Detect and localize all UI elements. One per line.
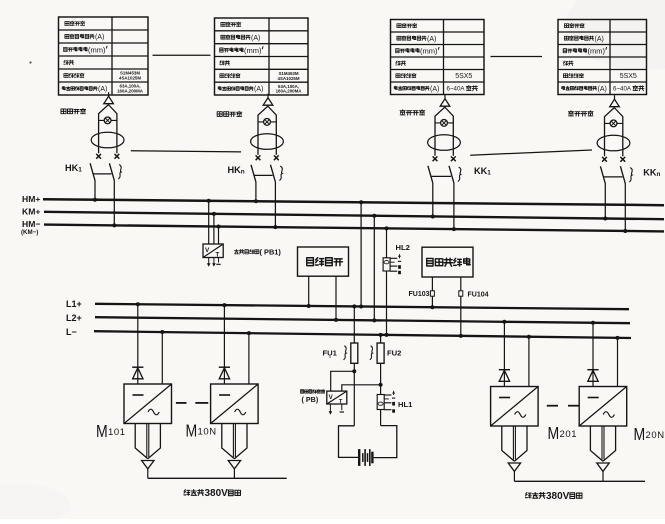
- svg-text:V: V: [205, 247, 210, 254]
- svg-text:(mm): (mm): [420, 47, 438, 56]
- feeder table T1 (feeder table rows: 馈线编号/馈线额定电流(A)/电缆及截面(mm)2/去向/开关型号/空气开关额定电流(A)): [59, 17, 149, 95]
- svg-text:M: M: [96, 421, 108, 441]
- svg-text:(KM−): (KM−): [21, 229, 38, 236]
- label 合闸回路: [217, 111, 242, 116]
- dc voltmeter PB1 (直流电压表) with selector: [203, 199, 223, 267]
- svg-text:380V: 380V: [205, 488, 229, 499]
- knife switch HK1: [90, 163, 121, 227]
- svg-text:HL1: HL1: [398, 400, 413, 409]
- breaker plug-in unit with indicator lamp, feeder 1: [91, 92, 124, 159]
- svg-text:L2+: L2+: [66, 313, 82, 323]
- indicator lamp HL2 on HM- to L- wire: [383, 226, 401, 337]
- scan speck: [29, 61, 31, 63]
- label 直流电压表(PB1): [234, 250, 258, 254]
- svg-text:5SX5: 5SX5: [455, 73, 472, 80]
- svg-text:20N: 20N: [646, 430, 665, 441]
- svg-text:HK: HK: [65, 163, 79, 173]
- bus HM+: [43, 199, 664, 205]
- feeder table T2 (feeder table rows: 馈线编号/馈线额定电流(A)/电缆及截面(mm)2/去向/开关型号/空气开关额定电流(A)): [215, 18, 309, 95]
- feeder table T4 (feeder table rows: 馈线编号/馈线额定电流(A)/电缆及截面(mm)2/去向/开关型号/空气开关额定电流(A)): [558, 20, 647, 95]
- svg-text:HK: HK: [228, 165, 242, 175]
- feeder table T3 (feeder table rows: 馈线编号/馈线额定电流(A)/电缆及截面(mm)2/去向/开关型号/空气开关额定电流(A)): [391, 20, 485, 95]
- svg-text:(A): (A): [430, 86, 439, 93]
- bus L2+: [95, 317, 630, 323]
- bus L-: [94, 331, 631, 338]
- svg-text:(A): (A): [251, 35, 260, 42]
- svg-text:HM−: HM−: [22, 219, 40, 229]
- svg-text:HL2: HL2: [396, 243, 410, 252]
- bus KM+: [44, 212, 664, 219]
- svg-text:(mm): (mm): [88, 45, 106, 54]
- svg-text:(A): (A): [427, 36, 436, 43]
- svg-text:(A): (A): [254, 86, 263, 93]
- svg-text:4SA1025M: 4SA1025M: [119, 76, 141, 81]
- svg-text:( PB): ( PB): [302, 395, 319, 404]
- svg-text:n: n: [657, 171, 661, 178]
- svg-text:5SX5: 5SX5: [620, 73, 637, 80]
- rectifier module M10N (AC/DC converter): [211, 303, 259, 469]
- svg-text:KK: KK: [474, 166, 488, 176]
- voltage dropper unit 降压装置: [298, 247, 349, 322]
- label 至交流380V电源 (right): [525, 492, 545, 498]
- fuse FU2 on battery negative: [377, 333, 384, 395]
- wire: link between table T1 and T2: [153, 54, 211, 56]
- svg-text:380V: 380V: [546, 491, 570, 502]
- svg-text:FU2: FU2: [387, 348, 401, 357]
- svg-text:10N: 10N: [198, 427, 217, 438]
- svg-text:1: 1: [78, 166, 82, 173]
- indicator lamp HL1 on battery negative: [377, 390, 395, 425]
- rectifier module M20N (AC/DC converter): [579, 321, 627, 472]
- breaker plug-in unit with indicator lamp, feeder 3: [428, 95, 461, 162]
- svg-text:201: 201: [560, 429, 578, 440]
- svg-text:(mm): (mm): [588, 47, 606, 56]
- rectifier module M101 (AC/DC converter): [124, 302, 172, 469]
- wire: link between table T3 and T4: [491, 56, 543, 58]
- dashed link M201..M20N: [547, 405, 558, 407]
- svg-text:T: T: [339, 399, 343, 405]
- label 控制回路: [568, 111, 593, 116]
- bus HM- (KM-): [44, 225, 664, 232]
- insulation monitor 绝缘监测仪: [422, 247, 473, 338]
- svg-text:L1+: L1+: [66, 299, 82, 309]
- label 合闸回路: [61, 109, 86, 114]
- knife switch KKN: [600, 166, 632, 233]
- svg-text:4SA1025M: 4SA1025M: [278, 76, 300, 81]
- knife switch HKN: [251, 165, 282, 229]
- spark gap mark at FU2: [370, 346, 372, 360]
- svg-text:M: M: [634, 424, 646, 444]
- AC 380V supply line (left group): [148, 469, 287, 478]
- svg-text:101: 101: [108, 427, 126, 438]
- svg-text:6~40A: 6~40A: [613, 86, 632, 93]
- svg-text:L−: L−: [66, 327, 77, 337]
- svg-text:( PB1): ( PB1): [260, 248, 282, 257]
- wire: link between feeder 3 and 4 units: [470, 150, 592, 155]
- svg-text:(A): (A): [595, 36, 604, 43]
- svg-text:T: T: [216, 252, 220, 258]
- wire KM+ to L2+: [373, 216, 375, 321]
- svg-text:6~40A: 6~40A: [447, 86, 466, 93]
- svg-text:M: M: [186, 421, 198, 441]
- svg-text:M: M: [548, 423, 560, 443]
- svg-text:HM+: HM+: [22, 194, 40, 204]
- wire: link between feeder 1 and 2 units: [131, 151, 241, 152]
- svg-text:160A,200MA: 160A,200MA: [117, 89, 144, 94]
- svg-text:FU104: FU104: [468, 292, 489, 299]
- svg-text:KM+: KM+: [22, 207, 40, 217]
- fuse FU1 on battery positive: [351, 304, 358, 425]
- svg-text:FU1: FU1: [323, 348, 338, 357]
- label 电池电压采样 (PB): [301, 390, 325, 394]
- wire HM+ to L1+: [360, 202, 362, 306]
- svg-text:KK: KK: [643, 168, 657, 178]
- bus L1+: [95, 304, 629, 309]
- spark gap mark at FU1: [344, 346, 346, 360]
- svg-text:n: n: [241, 169, 245, 176]
- knife switch KK1: [428, 166, 461, 231]
- svg-text:(A): (A): [98, 86, 107, 93]
- svg-text:FU103: FU103: [409, 291, 430, 298]
- svg-text:1: 1: [487, 170, 491, 177]
- label 控制回路: [400, 110, 425, 115]
- svg-text:(A): (A): [95, 34, 104, 41]
- svg-text:(mm): (mm): [244, 46, 262, 55]
- breaker plug-in unit with indicator lamp, feeder 4: [597, 95, 630, 162]
- breaker plug-in unit with indicator lamp, feeder 2: [251, 94, 284, 161]
- battery bank: [339, 426, 397, 466]
- dashed link M101..M10N: [176, 402, 187, 404]
- label 至交流380V电源 (left): [184, 490, 204, 496]
- svg-text:(A): (A): [598, 86, 607, 93]
- battery voltmeter PB (电池电压采样): [327, 369, 383, 415]
- rectifier module M201 (AC/DC converter): [491, 320, 538, 472]
- AC 380V supply line (right group): [514, 471, 645, 481]
- svg-text:160A,200MA: 160A,200MA: [276, 89, 303, 94]
